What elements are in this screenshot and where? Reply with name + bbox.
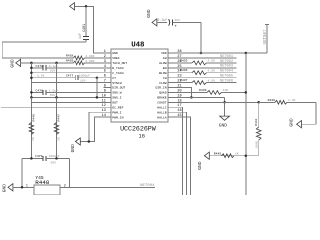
junction dots SNS_I (30, 96, 98, 99)
svg-text:16V: 16V (80, 78, 86, 82)
resistor R439 pullup QUAD (177, 88, 246, 95)
svg-text:R442: R442 (254, 118, 258, 126)
junction dot COAST 100K (257, 101, 260, 104)
wire DIR_IN to BRAKE (177, 88, 192, 98)
junction dot CT left (30, 76, 33, 79)
svg-text:SNS_I: SNS_I (112, 96, 121, 100)
resistor R440 (259, 98, 316, 104)
wire GND to R448 pin1 (13, 183, 34, 187)
wire PWM_IN hook (80, 117, 111, 141)
svg-text:R_TACH: R_TACH (112, 66, 123, 70)
resistor R437 on CLOW net (177, 78, 237, 84)
wire OUT row (31, 101, 111, 103)
wire bridge CT to SNS_I (96, 78, 98, 98)
net label NET007 (264, 29, 268, 45)
wire left rail B (56, 63, 58, 158)
power arrow top-left (70, 3, 75, 10)
svg-text:BRAKE: BRAKE (157, 96, 166, 100)
svg-text:NET004: NET004 (220, 70, 233, 74)
svg-text:R445: R445 (214, 151, 222, 155)
ground symbol right (288, 118, 301, 128)
svg-text:GND: GND (2, 184, 8, 193)
wire C480 down to VDD row (200, 22, 202, 53)
capacitor C481 (78, 6, 89, 42)
svg-text:10K: 10K (223, 88, 229, 92)
svg-text:1K: 1K (235, 152, 239, 156)
junction dot R448 pin1 (21, 186, 24, 189)
svg-text:C477: C477 (66, 73, 74, 77)
wire BRAKE row (177, 97, 225, 102)
svg-text:R448: R448 (35, 179, 50, 186)
svg-text:R446: R446 (32, 114, 36, 122)
wire R440 to GND (302, 102, 316, 124)
wire TACH_OUT row (21, 62, 111, 64)
junction dot QUAD VDD (245, 91, 248, 94)
wire AH net (177, 55, 237, 59)
svg-text:4.99: 4.99 (208, 69, 216, 73)
svg-text:C479: C479 (35, 154, 43, 158)
ground symbol top-right (146, 9, 157, 26)
svg-text:8: 8 (104, 85, 106, 89)
svg-text:R440: R440 (268, 98, 276, 102)
svg-text:1K: 1K (31, 137, 35, 141)
wire 100K to R445 row (209, 155, 258, 157)
IC U48 left pin stubs, numbers 1-14 and pin names (102, 50, 128, 119)
junction dots C479 row (30, 157, 58, 160)
wire C481 to VREF row left bracket (2, 42, 86, 58)
capacitor C480 polarized (157, 18, 201, 30)
wire HALLC (177, 107, 183, 195)
svg-text:HALLA: HALLA (157, 115, 166, 119)
svg-text:PWM_I: PWM_I (112, 110, 121, 114)
svg-text:CLOW: CLOW (159, 81, 167, 85)
svg-text:+: + (174, 25, 177, 30)
resistor R435 on ALOW net (177, 58, 237, 64)
svg-text:C_TACH: C_TACH (112, 71, 123, 75)
svg-text:CT: CT (112, 76, 116, 80)
junction dot node C481 top (85, 5, 88, 8)
junction dot CT bridge (96, 76, 99, 79)
svg-text:NET004: NET004 (140, 184, 155, 188)
wire VDD row (177, 24, 270, 53)
junction dot DIR_IN-BRAKE (190, 96, 193, 99)
svg-text:GND: GND (219, 122, 228, 128)
svg-text:R435: R435 (180, 58, 188, 62)
svg-text:NET001: NET001 (220, 55, 233, 59)
svg-text:R439: R439 (199, 88, 207, 92)
svg-text:PWM_IN: PWM_IN (112, 115, 123, 119)
wire net NET004 (70, 184, 156, 188)
svg-text:NET003: NET003 (220, 65, 233, 69)
wire DC_REF row (1, 106, 111, 108)
wire SYNCH row (31, 82, 111, 84)
svg-text:NET005: NET005 (220, 75, 233, 79)
svg-text:1K: 1K (56, 137, 60, 141)
svg-text:SNS_W: SNS_W (112, 91, 121, 95)
junction dot PWM hook (88, 140, 91, 143)
svg-text:GND: GND (146, 9, 152, 18)
svg-text:16: 16 (139, 133, 145, 139)
wire HALLB (177, 112, 187, 195)
wire CH net (177, 75, 237, 79)
svg-text:NET006: NET006 (220, 80, 233, 84)
svg-text:GND: GND (288, 118, 294, 127)
svg-text:2: 2 (64, 183, 66, 187)
svg-text:50V: 50V (51, 160, 57, 164)
svg-text:4.99K: 4.99K (85, 59, 94, 63)
svg-text:OUT: OUT (112, 101, 118, 105)
svg-text:1.3K: 1.3K (288, 98, 296, 102)
IC U48 right pin stubs, numbers 28-15 and pin names (155, 50, 181, 119)
svg-text:C476: C476 (36, 88, 44, 92)
resistor R445 (214, 151, 239, 157)
svg-text:ALOW: ALOW (159, 61, 167, 65)
junction dot BRAKE-COAST (223, 101, 226, 104)
svg-text:BH: BH (163, 66, 167, 70)
svg-text:R447: R447 (57, 114, 61, 122)
capacitor C477 (31, 73, 111, 82)
wire BH net (177, 65, 237, 69)
junction dot VDD cap (200, 52, 203, 55)
wire SNS_I row (31, 96, 111, 98)
svg-text:C478: C478 (36, 64, 44, 68)
wire C479 right leg (69, 158, 71, 187)
svg-text:4.99: 4.99 (208, 59, 216, 63)
wire C479 left leg (21, 158, 23, 187)
svg-text:U48: U48 (131, 41, 145, 49)
svg-text:0.1uF: 0.1uF (49, 64, 58, 68)
resistor R442 (254, 102, 261, 155)
svg-text:GND: GND (70, 144, 76, 153)
ground symbol bottom-center (197, 152, 209, 170)
wire COAST row (177, 101, 259, 103)
svg-text:NET007: NET007 (264, 29, 268, 45)
junction dots TACH_OUT row (30, 62, 58, 65)
ground symbol center (219, 102, 230, 128)
ground symbol left (10, 59, 21, 68)
resistor R436 on BLOW net (177, 68, 237, 75)
svg-text:DIR_IN: DIR_IN (155, 86, 166, 90)
svg-text:TACH_OUT: TACH_OUT (112, 61, 127, 65)
op-amp U48 IC body UCC2626PW (111, 41, 168, 139)
wire PWM_I hook (89, 112, 111, 141)
resistor R439 (66, 59, 95, 65)
svg-text:HALLC: HALLC (157, 105, 166, 109)
junction dot C_TACH left (30, 71, 33, 74)
wire pin1 GND from top arrow to IC pin 1 (75, 6, 112, 53)
capacitor C479 (22, 154, 70, 164)
svg-text:GND: GND (112, 51, 118, 55)
svg-text:1.0uF: 1.0uF (49, 89, 58, 93)
svg-text:COAST: COAST (157, 101, 166, 105)
wire HALLA (177, 117, 191, 195)
svg-text:1000pF: 1000pF (79, 73, 90, 77)
svg-text:R436: R436 (180, 68, 188, 72)
wire VDD rail vertical (245, 53, 247, 195)
svg-text:100K: 100K (254, 141, 258, 149)
svg-text:QUAD: QUAD (159, 91, 167, 95)
resistor R438 (66, 54, 95, 60)
ground symbol PWM (70, 138, 81, 153)
junction dot VDD rail (245, 52, 248, 55)
svg-text:1: 1 (26, 183, 28, 187)
wire left rail A (30, 63, 32, 158)
wire R448 pin2 (60, 183, 69, 187)
junction dot SNS_W left (30, 91, 33, 94)
svg-text:SYNCH: SYNCH (112, 81, 121, 85)
svg-text:HALLB: HALLB (157, 110, 166, 114)
svg-text:BLOW: BLOW (159, 71, 167, 75)
svg-text:GND: GND (197, 161, 203, 170)
wire C_TACH row (31, 72, 111, 74)
svg-text:16V: 16V (174, 18, 180, 22)
svg-text:1.5K: 1.5K (37, 73, 45, 77)
svg-text:AH: AH (163, 56, 167, 60)
svg-text:UCC2626PW: UCC2626PW (120, 125, 156, 132)
svg-text:VREF: VREF (112, 56, 120, 60)
svg-text:50V: 50V (50, 93, 56, 97)
svg-text:R437: R437 (180, 78, 188, 82)
svg-text:4.99K: 4.99K (85, 54, 94, 58)
svg-text:R439: R439 (66, 59, 74, 63)
svg-text:50V: 50V (50, 69, 56, 73)
svg-text:NET002: NET002 (220, 60, 233, 64)
resistor R446 (29, 97, 35, 158)
svg-text:2.2uF: 2.2uF (158, 18, 168, 22)
svg-text:VDD: VDD (161, 51, 167, 55)
capacitor C476 (31, 88, 111, 97)
svg-text:C481: C481 (82, 24, 86, 32)
svg-text:DIR_OUT: DIR_OUT (112, 86, 125, 90)
svg-text:DC_REF: DC_REF (112, 105, 123, 109)
svg-text:1000pF: 1000pF (49, 154, 60, 158)
ground symbol bottom-left (2, 184, 13, 193)
svg-text:CH: CH (163, 76, 167, 80)
svg-text:R438: R438 (66, 54, 74, 58)
svg-text:GND: GND (10, 59, 16, 68)
wire VREF row (2, 57, 111, 59)
svg-text:1uF: 1uF (78, 33, 82, 39)
junction dot R_TACH (30, 67, 33, 70)
junction dot R445 VDD rail (245, 154, 248, 157)
resistor network R448 Y45 (34, 175, 60, 195)
resistor R447 (54, 97, 61, 158)
capacitor C478 (31, 64, 111, 73)
svg-text:4.99: 4.99 (208, 78, 216, 82)
